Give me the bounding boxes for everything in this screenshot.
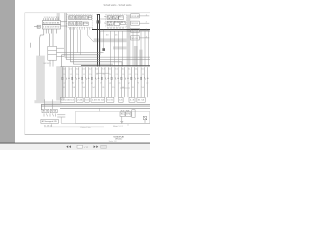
svg-text:S1 24: S1 24 — [43, 111, 48, 113]
svg-text:F1 15: F1 15 — [107, 17, 111, 19]
terminal strip box T7 — [129, 97, 135, 102]
stub wire to B1 — [34, 26, 37, 28]
svg-text:31 54: 31 54 — [138, 100, 145, 102]
svg-text:4.1: 4.1 — [83, 69, 86, 71]
terminal strip box T8 — [137, 97, 145, 102]
connector R1 box — [131, 14, 140, 18]
relay K5 box — [69, 21, 76, 25]
svg-text:1 2 3 4 5 6 7 8 9: 1 2 3 4 5 6 7 8 9 — [44, 17, 60, 19]
svg-text:1.5: 1.5 — [122, 74, 124, 76]
wire S right upper — [57, 114, 65, 116]
wire link A1 to K-cluster lower — [61, 25, 67, 27]
svg-text:2.5: 2.5 — [103, 74, 105, 76]
svg-text:2: 2 — [146, 22, 147, 24]
svg-text:12 5 86: 12 5 86 — [69, 24, 74, 26]
fuse F5 box — [114, 21, 119, 25]
stub wire into F cluster lower — [104, 22, 106, 24]
svg-text:SCHALTPLAN: SCHALTPLAN — [113, 136, 124, 139]
svg-text:6.1: 6.1 — [96, 69, 99, 71]
grey harness v-band1 (right) — [127, 15, 131, 67]
battery bus vertical line 2 — [99, 15, 101, 67]
svg-text:1.2: 1.2 — [63, 69, 66, 71]
svg-text:2.5: 2.5 — [76, 74, 78, 76]
relay K3 box — [82, 16, 88, 20]
vertical consumer wire field — [62, 67, 147, 97]
svg-text:31: 31 — [132, 87, 135, 89]
fuse cluster F (top right) dashed enclosure — [106, 14, 127, 27]
field wire labels row 2 — [63, 87, 144, 89]
toolbar icon: next arrows — [94, 145, 99, 148]
legend block tall box — [132, 110, 135, 118]
svg-text:Blatt 1 / 2: Blatt 1 / 2 — [113, 125, 123, 128]
connector R labels — [131, 14, 146, 40]
wire drop from A1 pin 7 — [55, 29, 57, 34]
svg-text:K3 87: K3 87 — [82, 17, 87, 19]
junction blob on bus — [102, 48, 105, 51]
frame box lower right (faint) — [75, 111, 149, 123]
field top rail — [61, 66, 151, 68]
wire LM down 1 — [49, 60, 51, 66]
lower rail drop — [60, 117, 62, 123]
connector R2 box — [131, 21, 140, 25]
svg-text:15: 15 — [112, 87, 115, 89]
drawing frame left — [24, 13, 26, 135]
ground bus wire 3 — [60, 107, 150, 109]
staircase wire 4 — [66, 13, 150, 60]
grey harness h-band2 (right small) — [113, 46, 127, 49]
terminal box B1 — [37, 25, 40, 28]
battery bus vertical line 1 — [97, 15, 99, 67]
wire LM right upper — [57, 47, 65, 49]
grey harness h-band1 (right) — [94, 38, 127, 42]
battery bus top tick — [97, 14, 100, 16]
svg-text:1.3: 1.3 — [130, 100, 135, 102]
wire drop from A1 pin 1 — [39, 29, 43, 56]
valve component V1 — [143, 116, 146, 122]
wire LM down 2 — [52, 60, 54, 66]
svg-text:49: 49 — [122, 87, 125, 89]
svg-text:2.46: 2.46 — [77, 100, 82, 102]
terminal strip box T2 — [77, 97, 84, 102]
lower rail wire — [61, 122, 150, 124]
legend box L2 — [126, 112, 131, 116]
wire band to S1 — [44, 99, 46, 109]
svg-text:31: 31 — [102, 87, 105, 89]
svg-text:K6 302: K6 302 — [77, 22, 82, 24]
svg-text:54: 54 — [92, 87, 95, 89]
connector R4 box — [131, 36, 140, 40]
svg-text:F4 301: F4 301 — [107, 22, 112, 24]
faint inner bottom line — [44, 126, 104, 128]
fuse F2 box — [113, 16, 118, 20]
svg-text:31: 31 — [63, 87, 66, 89]
svg-text:1.5: 1.5 — [83, 74, 85, 76]
toolbar icon: zoom box — [101, 145, 107, 148]
wire drop K to bus left — [92, 27, 94, 29]
scan crease mark — [29, 43, 31, 48]
svg-text:1.5: 1.5 — [109, 74, 111, 76]
svg-text:2.5: 2.5 — [89, 74, 91, 76]
svg-text:X3 31: X3 31 — [131, 23, 138, 25]
left sidebar panel — [0, 0, 15, 143]
fuse cluster F labels — [107, 17, 124, 27]
terminal strip box T5 — [107, 97, 114, 102]
LM divider 2 — [48, 54, 57, 56]
svg-text:2.5: 2.5 — [142, 74, 144, 76]
terminal strip box T4 — [91, 97, 105, 102]
wire drop from A1 pin 6 — [52, 29, 54, 46]
relay K2 box — [75, 16, 81, 20]
wire drop K cluster right — [89, 27, 91, 30]
svg-text:7.3: 7.3 — [102, 69, 105, 71]
switch box S1 — [42, 109, 49, 112]
terminal strip labels — [61, 100, 144, 102]
svg-text:15: 15 — [115, 35, 118, 37]
wire drop from A1 pin 5 — [50, 29, 52, 34]
svg-text:3: 3 — [146, 29, 147, 31]
app background — [0, 0, 150, 150]
svg-text:S2 24: S2 24 — [51, 111, 56, 113]
drop from ground bus to frame box — [98, 108, 100, 111]
staircase wire 2 — [62, 31, 101, 55]
svg-text:F2 15: F2 15 — [113, 17, 118, 19]
drawing frame bottom — [25, 134, 150, 136]
svg-text:1.5: 1.5 — [70, 74, 72, 76]
legend box L1 — [120, 112, 125, 116]
feeder wire to staircase 1 — [77, 30, 79, 53]
ground symbol G1 wire — [121, 116, 123, 121]
svg-text:1.5: 1.5 — [96, 74, 98, 76]
svg-text:F5 30: F5 30 — [115, 22, 120, 24]
field link wire upper — [96, 72, 109, 74]
svg-text:1.48 31 54: 1.48 31 54 — [92, 100, 104, 102]
module A1 box2 — [42, 25, 60, 29]
svg-text:2.5: 2.5 — [129, 74, 131, 76]
svg-text:5.6: 5.6 — [119, 100, 122, 102]
stub wire into F cluster upper — [104, 16, 106, 18]
fuse F4 box — [107, 21, 113, 25]
feeder wire to staircase 2 — [80, 30, 82, 55]
relay K1 box — [69, 16, 75, 20]
wire band to S2 — [51, 99, 53, 109]
status bar — [0, 143, 150, 150]
svg-text:K7 30: K7 30 — [84, 23, 88, 25]
wire drop from A1 pin 4 — [49, 34, 51, 47]
wire drops from supply bus (right section) — [110, 31, 112, 67]
wire drops from K cluster — [69, 27, 71, 30]
connector X1 pin ticks — [44, 18, 59, 20]
svg-text:K2 86: K2 86 — [76, 17, 81, 19]
svg-text:5.2: 5.2 — [89, 69, 92, 71]
wire drop from A1 pin 2 — [45, 29, 47, 34]
control unit LM box — [48, 46, 57, 60]
connector R3 box — [131, 28, 140, 32]
wire drop K to diagonal — [86, 27, 88, 35]
switch labels S1 S2 — [42, 111, 57, 128]
toolbar icon: page field — [77, 145, 83, 148]
wire R2 to edge — [139, 22, 149, 24]
wire R3 to edge — [139, 30, 149, 32]
staircase wire 1 — [57, 52, 104, 54]
relay K6 box — [76, 21, 82, 25]
wire S right lower — [57, 116, 65, 118]
svg-text:30: 30 — [106, 35, 109, 37]
svg-text:1.5: 1.5 — [135, 74, 137, 76]
svg-text:1 Relais 2 Sich.: 1 Relais 2 Sich. — [80, 127, 92, 129]
svg-text:8.1: 8.1 — [109, 69, 112, 71]
sheet tick mark — [127, 124, 129, 126]
svg-text:58: 58 — [73, 87, 76, 89]
control box S3 — [41, 119, 58, 123]
terminal strip box T3 — [85, 97, 89, 102]
terminal strip box T6 — [119, 97, 124, 102]
svg-text:sw: sw — [146, 82, 148, 84]
svg-text:X7 X8: X7 X8 — [120, 110, 130, 112]
diagonal wire into harness band — [87, 35, 94, 42]
grey harness band A (left vertical) — [36, 56, 45, 101]
drop from S3 to inner line — [50, 124, 52, 127]
svg-text:30 87a: 30 87a — [82, 18, 86, 20]
svg-text:56: 56 — [83, 87, 86, 89]
drawing frame top — [25, 12, 150, 14]
bus junction box — [97, 20, 101, 23]
wire R1 to edge — [139, 15, 149, 17]
svg-text:2.1: 2.1 — [69, 69, 72, 71]
svg-text:K5 301: K5 301 — [69, 22, 74, 24]
grey harness band C (bottom-left horizontal) — [34, 100, 44, 103]
ground bus left drop — [40, 104, 42, 110]
field link wire lower — [120, 87, 130, 89]
staircase wire 5 — [71, 27, 123, 66]
svg-text:12 5 8: 12 5 8 — [77, 24, 82, 26]
switch contact marks — [43, 114, 45, 117]
field mid labels — [63, 74, 148, 84]
toolbar icon: prev arrows — [66, 145, 71, 148]
wire link A1 to K-cluster upper — [61, 21, 67, 23]
wire drop from A1 pin 3 — [48, 29, 50, 34]
ground bus wire 1 — [41, 103, 150, 105]
svg-text:K1 85: K1 85 — [69, 17, 74, 19]
ground symbol G1 — [120, 121, 123, 123]
svg-text:sw: sw — [63, 82, 65, 84]
svg-text:Seite 1/2: Seite 1/2 — [109, 140, 117, 143]
svg-text:1 2 3 4 5 6 7 8 9 0: 1 2 3 4 5 6 7 8 9 0 — [43, 27, 59, 29]
wire R4 to edge — [139, 37, 149, 39]
status bar separator line — [0, 142, 150, 144]
main supply horizontal dark wire — [92, 29, 150, 31]
relay K7 box — [83, 22, 88, 26]
LM divider 1 — [48, 50, 57, 52]
svg-text:9.2: 9.2 — [115, 69, 118, 71]
svg-text:15 31: 15 31 — [107, 100, 113, 102]
svg-text:K4: K4 — [89, 17, 92, 19]
ground bus wire 2 — [41, 105, 150, 107]
field wire labels row 1 — [63, 69, 145, 71]
svg-text:24 31 5: 24 31 5 — [44, 63, 51, 65]
staircase wire 2 left drop — [61, 55, 63, 67]
switch box S2 — [50, 109, 57, 112]
component symbols on field wires — [62, 77, 148, 80]
svg-text:87 b: 87 b — [126, 114, 130, 116]
fuse F6 box — [121, 21, 126, 25]
svg-text:30 87a: 30 87a — [69, 18, 73, 20]
grey harness v-band3 — [139, 50, 142, 67]
fuse F1 box — [107, 16, 112, 20]
svg-text:3.4: 3.4 — [76, 69, 79, 71]
wire drop to junction — [103, 30, 105, 49]
svg-text:1: 1 — [146, 14, 147, 16]
grey harness v-band2 — [134, 46, 138, 66]
svg-text:30 87a: 30 87a — [76, 18, 80, 20]
svg-text:2.5: 2.5 — [63, 74, 65, 76]
terminal strip box T1 — [60, 97, 75, 102]
fuse F3 box — [119, 16, 124, 20]
svg-text:F6 3: F6 3 — [121, 22, 125, 24]
relay cluster K labels — [69, 17, 91, 27]
svg-text:4: 4 — [146, 36, 147, 38]
staircase wire 6 — [74, 27, 114, 64]
svg-text:2.5: 2.5 — [116, 74, 118, 76]
svg-text:30 a: 30 a — [121, 114, 125, 116]
staircase wire 3 — [65, 13, 150, 57]
relay cluster K (top middle) dashed enclosure — [67, 15, 92, 28]
svg-text:54: 54 — [142, 87, 145, 89]
svg-text:Schalt wärts - Schalt wärts: Schalt wärts - Schalt wärts — [104, 3, 133, 7]
svg-text:1.3 2.46 6.3: 1.3 2.46 6.3 — [61, 100, 74, 102]
grey harness entry band top-left — [57, 13, 60, 21]
module A1 box1 — [42, 21, 60, 25]
grey harness band B (second left vertical) — [56, 66, 64, 100]
wire drops from F cluster — [107, 27, 109, 30]
wire LM right lower — [57, 56, 65, 58]
svg-text:F3 5: F3 5 — [119, 17, 123, 19]
bus stub to fuse cluster — [100, 18, 106, 20]
svg-text:31 58 54: 31 58 54 — [44, 126, 52, 128]
secondary supply horizontal wire — [99, 30, 150, 32]
dark distribution wire — [81, 65, 150, 67]
svg-text:6.3: 6.3 — [86, 100, 89, 102]
relay K4 box — [88, 16, 92, 20]
